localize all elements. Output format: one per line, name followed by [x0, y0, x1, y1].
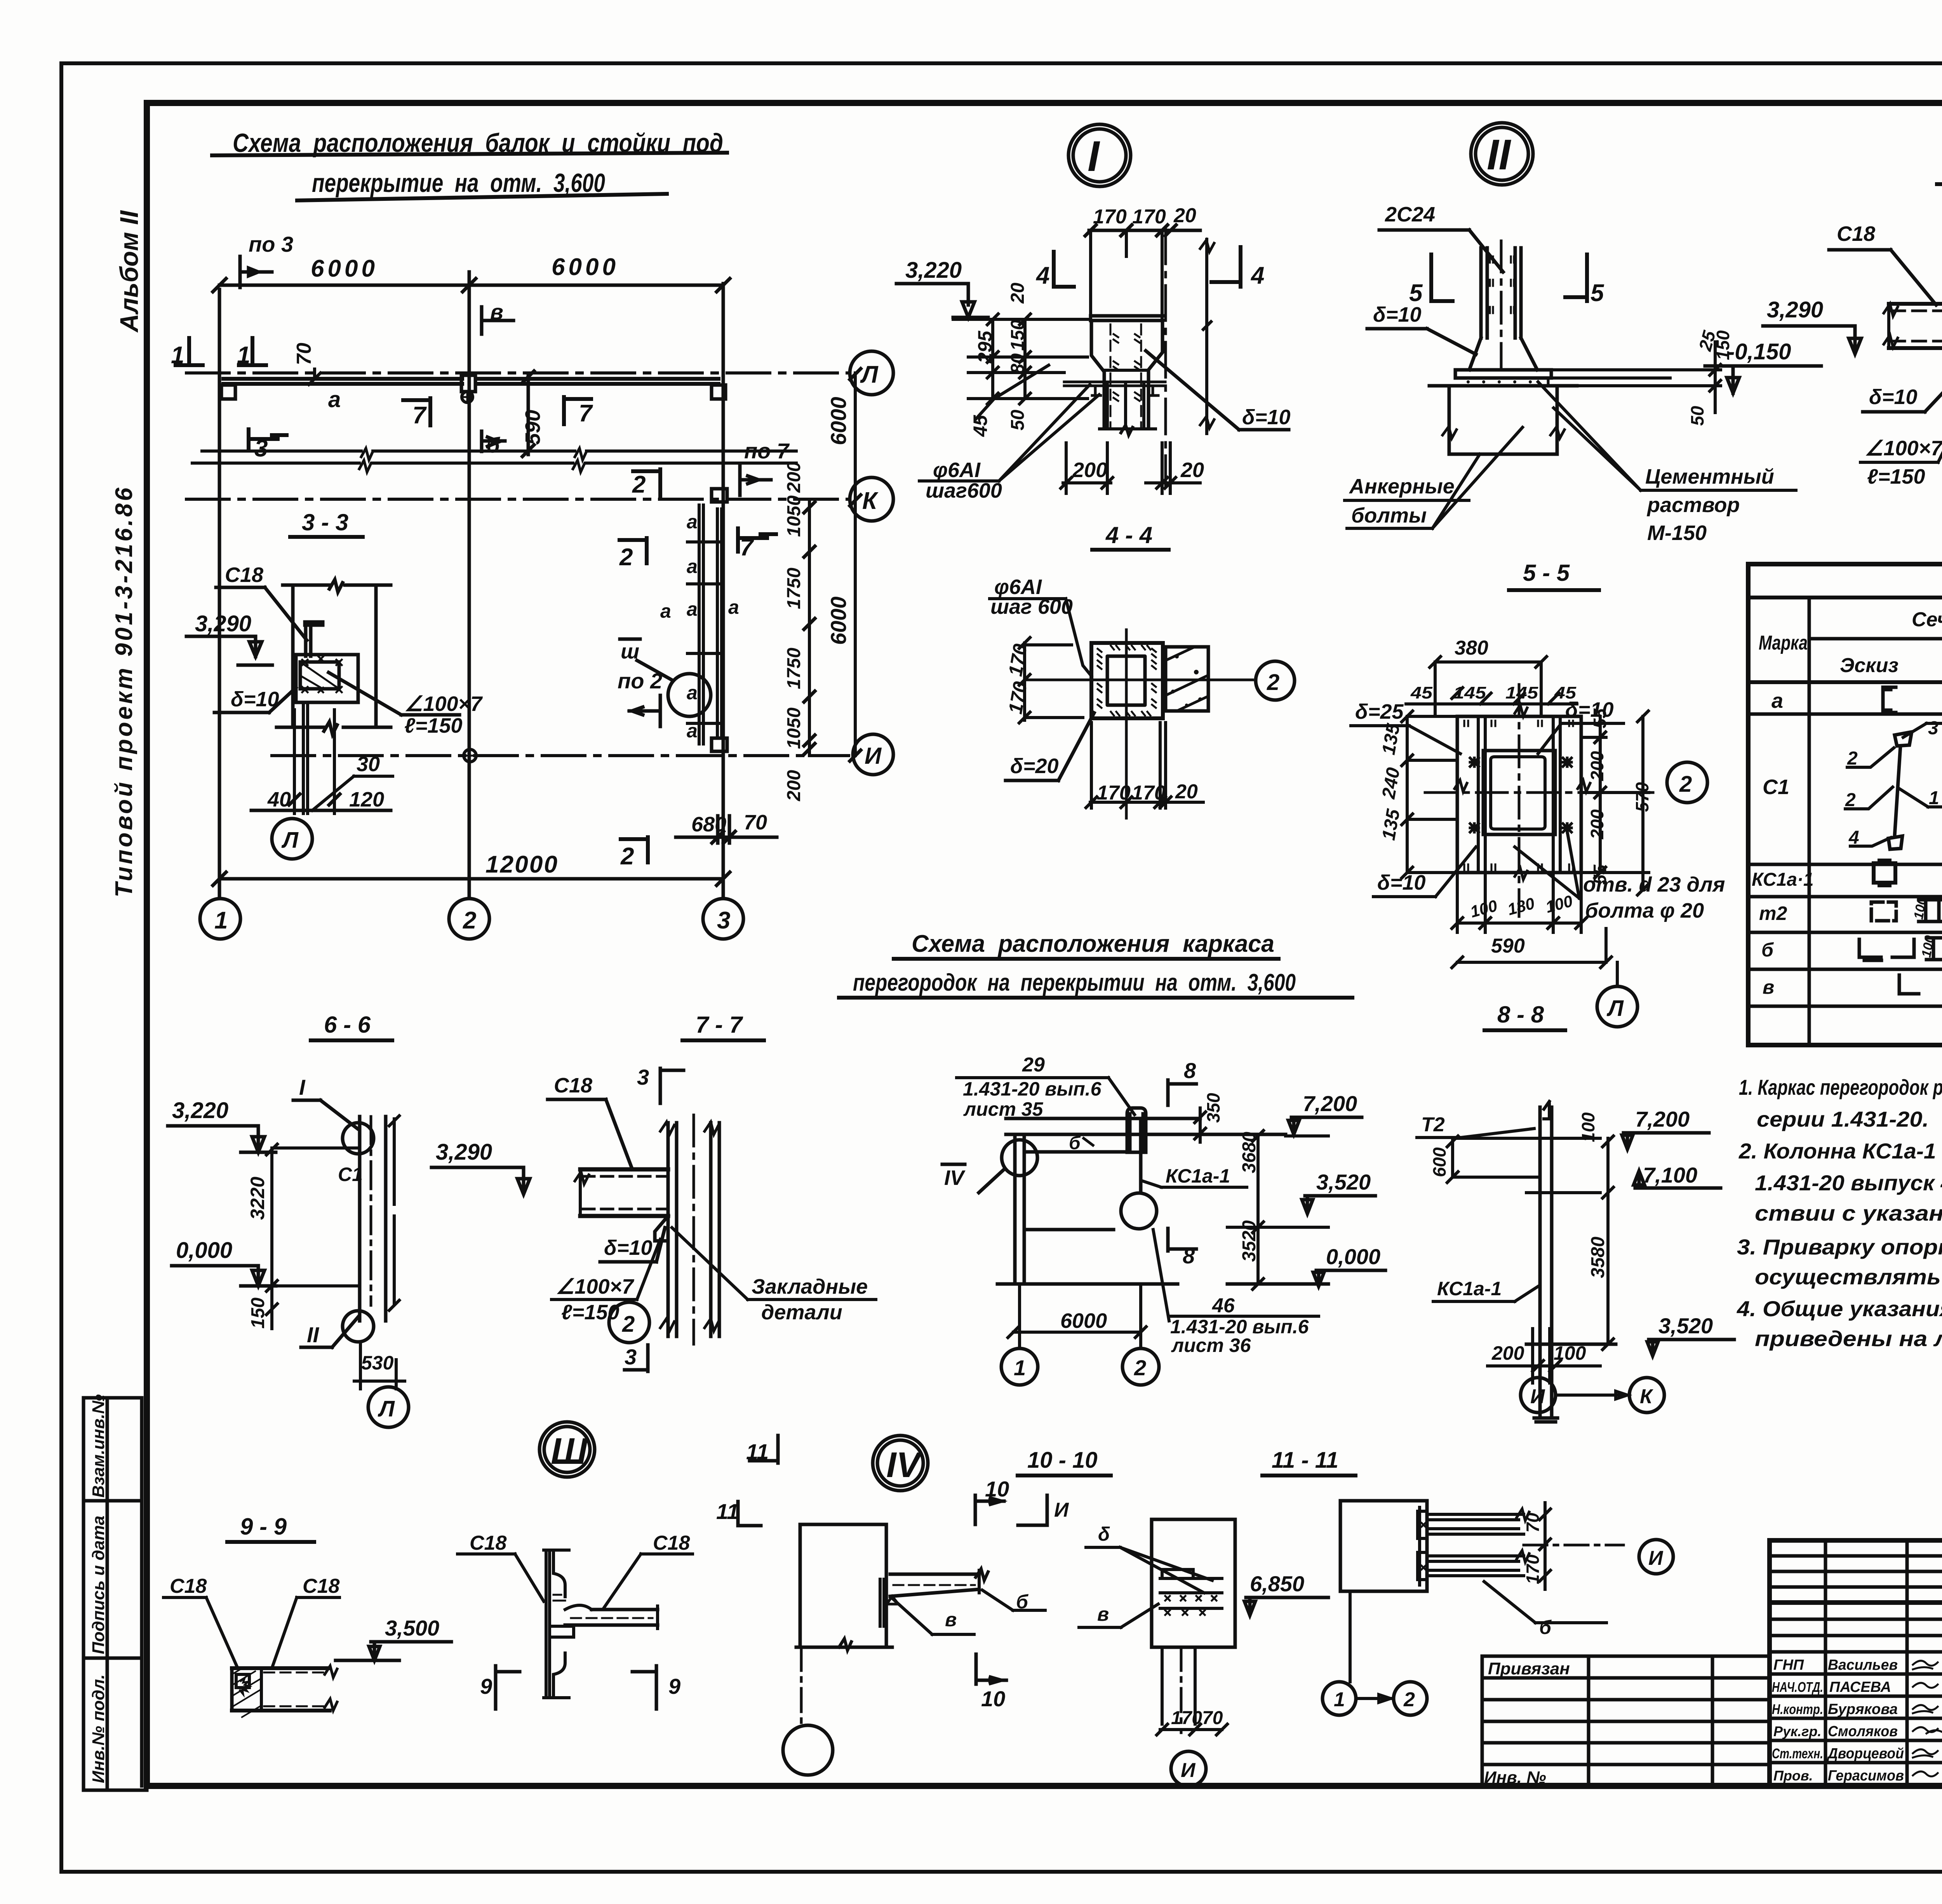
7-7 delta=10 label [600, 1228, 665, 1262]
row KC1a-1 [1752, 860, 1942, 891]
frame bottom dim 6000 [1008, 1284, 1146, 1348]
svg-text:С18: С18 [170, 1575, 207, 1597]
level 3,290 detail 3-3 [186, 611, 272, 665]
svg-text:a: a [728, 596, 739, 618]
5-5 dim 590 [1452, 928, 1611, 968]
left reference grid [1482, 1656, 1770, 1787]
svg-text:3580: 3580 [1588, 1237, 1608, 1278]
label 4-4 [1092, 522, 1169, 550]
svg-text:детали: детали [761, 1301, 842, 1324]
node I section mark 4 left [1035, 252, 1074, 289]
section mark 2 upper [632, 469, 660, 498]
svg-text:Сечения: Сечения [1912, 608, 1942, 631]
label delta=10 detail 3-3 [214, 688, 296, 712]
svg-text:9 - 9: 9 - 9 [240, 1514, 287, 1540]
node II level -0,150 [1705, 339, 1821, 393]
svg-text:Закладные: Закладные [752, 1275, 868, 1298]
8-8 bottom dims 200 100 [1488, 1329, 1600, 1383]
svg-text:Инв. №: Инв. № [1484, 1768, 1546, 1787]
level 0,000 frame [1227, 1244, 1385, 1286]
svg-text:∠100×7: ∠100×7 [556, 1275, 635, 1298]
svg-text:1.431-20 вып.6: 1.431-20 вып.6 [963, 1078, 1102, 1100]
svg-text:1: 1 [1929, 788, 1939, 808]
svg-text:11 - 11: 11 - 11 [1272, 1448, 1338, 1473]
svg-text:2: 2 [1845, 790, 1856, 810]
axis I dash-dot [272, 749, 849, 763]
svg-text:8: 8 [1184, 1058, 1196, 1083]
circle III node label [539, 1422, 595, 1477]
svg-text:200: 200 [784, 770, 804, 801]
7-7 section mark 3 bottom [625, 1345, 648, 1371]
label 1-1 [1937, 154, 1942, 184]
node I right break line [1200, 239, 1214, 434]
section mark 2 mid [619, 538, 647, 571]
svg-text:295: 295 [974, 330, 996, 364]
5-5 circle L [1597, 962, 1637, 1027]
svg-text:80: 80 [1008, 353, 1028, 374]
svg-text:КС1а·1: КС1а·1 [1752, 869, 1814, 890]
mark po 3 [240, 232, 293, 287]
svg-text:δ=25: δ=25 [1355, 700, 1404, 723]
10-10 level 6,850 [1244, 1571, 1328, 1615]
svg-text:2: 2 [622, 1312, 635, 1337]
6-6 node I ref [293, 1075, 357, 1129]
svg-text:6000: 6000 [826, 397, 851, 445]
5-5 delta=10 right label [1538, 698, 1624, 754]
svg-text:2: 2 [1847, 748, 1858, 769]
6-6 dim 530 [354, 1344, 405, 1389]
mark sh III with circle [620, 639, 711, 716]
4-4 left dims 170 170 [1004, 638, 1083, 723]
mark po 7 [740, 439, 790, 495]
svg-text:С18: С18 [470, 1532, 506, 1554]
svg-text:δ=10: δ=10 [1377, 871, 1426, 894]
label 8-8 [1484, 1002, 1565, 1030]
svg-text:2: 2 [1403, 1688, 1415, 1711]
svg-text:a: a [687, 598, 698, 620]
svg-text:раствор: раствор [1646, 493, 1740, 517]
III column and beam [544, 1550, 658, 1698]
svg-text:перегородок на перекрытии н: перегородок на перекрытии на отм. 3,600 [853, 969, 1296, 996]
svg-text:болта φ 20: болта φ 20 [1585, 899, 1704, 922]
section mark 2 bottom [620, 837, 648, 870]
svg-text:3,520: 3,520 [1316, 1170, 1371, 1194]
svg-text:И: И [1054, 1499, 1069, 1521]
dim 350 [1195, 1093, 1223, 1142]
III C18 labels [458, 1532, 693, 1608]
9-9 C18 labels [164, 1575, 339, 1668]
svg-text:3,520: 3,520 [1658, 1313, 1713, 1338]
svg-text:Цементный: Цементный [1645, 465, 1774, 488]
5-5 plate square [1425, 685, 1653, 916]
svg-text:5: 5 [1409, 280, 1423, 307]
svg-text:IV: IV [944, 1166, 966, 1190]
svg-text:С18: С18 [653, 1532, 690, 1554]
svg-text:С1: С1 [1763, 775, 1789, 799]
label KC1a-1 on frame [1143, 1165, 1247, 1187]
section mark I right [1018, 1495, 1069, 1525]
svg-text:3. Приварку опорных консолей (: 3. Приварку опорных консолей (∠100×7) к … [1737, 1235, 1942, 1259]
svg-text:3,290: 3,290 [1767, 297, 1823, 322]
left margin vertical text: project number [111, 485, 137, 897]
svg-text:по 3: по 3 [249, 232, 293, 256]
dim 3520 frame [1239, 1220, 1263, 1289]
svg-text:170: 170 [1132, 206, 1166, 228]
svg-text:3,220: 3,220 [905, 258, 962, 283]
stamp signatures [1772, 1657, 1942, 1784]
svg-text:осуществлять по всему периметр: осуществлять по всему периметру сопряжен… [1755, 1265, 1942, 1289]
svg-text:1: 1 [214, 907, 228, 934]
11-11 circles 1 2 [1323, 1682, 1427, 1715]
svg-text:70: 70 [1523, 1512, 1543, 1533]
8-8 dim 3580 [1588, 1193, 1613, 1350]
svg-text:200: 200 [1072, 458, 1107, 482]
section mark 11 upper right of III [716, 1499, 761, 1526]
svg-text:3,290: 3,290 [436, 1139, 492, 1165]
5-5 hole label [1515, 831, 1725, 922]
svg-text:КС1а-1: КС1а-1 [1166, 1165, 1230, 1187]
svg-text:Т2: Т2 [1421, 1113, 1445, 1136]
5-5 delta=10 bottom label [1373, 847, 1476, 897]
row C1 [1763, 718, 1942, 866]
level 7,200 frame [1288, 1091, 1362, 1134]
svg-text:в: в [1763, 976, 1774, 998]
8-8 T2 label [1417, 1113, 1534, 1138]
svg-text:20: 20 [1008, 282, 1028, 304]
svg-text:ПАСЕВА: ПАСЕВА [1829, 1679, 1891, 1695]
5-5 right dims 55 200 200 570 55 [1581, 708, 1652, 895]
section mark 7 right [564, 397, 593, 427]
svg-text:2: 2 [1679, 772, 1692, 797]
node II label 2C24 [1379, 203, 1503, 272]
svg-text:46: 46 [1212, 1294, 1235, 1317]
svg-text:8: 8 [1183, 1244, 1195, 1268]
svg-text:2: 2 [632, 471, 646, 498]
frame beam and posts [997, 1108, 1286, 1284]
10-10 delta label [1086, 1523, 1212, 1593]
node II dims 25 150 50 [1546, 328, 1733, 426]
node II circle [1471, 123, 1533, 185]
9-9 beam [232, 1666, 337, 1717]
axis grid line 3 vertical [722, 284, 725, 897]
svg-text:по 7: по 7 [744, 439, 790, 463]
svg-text:3,500: 3,500 [385, 1616, 439, 1640]
axis K dash-dot [186, 498, 849, 501]
table frame [1748, 564, 1942, 1045]
node II anchor bolts label [1345, 427, 1523, 528]
svg-text:К: К [862, 488, 879, 514]
node I axis dash-dot [1164, 229, 1167, 486]
svg-text:Ст.техн.: Ст.техн. [1772, 1745, 1823, 1761]
svg-text:Типовой проект 901-3-216.86: Типовой проект 901-3-216.86 [111, 485, 137, 897]
svg-text:Схема расположения каркаса: Схема расположения каркаса [912, 930, 1274, 957]
svg-text:120: 120 [349, 788, 384, 811]
svg-text:К: К [1640, 1385, 1653, 1408]
svg-text:I: I [1088, 132, 1100, 180]
svg-text:Герасимов: Герасимов [1828, 1768, 1904, 1784]
svg-text:7,200: 7,200 [1635, 1107, 1690, 1131]
label 9-9 [227, 1514, 314, 1542]
svg-text:4. Общие указания и требования: 4. Общие указания и требования по расчет… [1737, 1296, 1942, 1321]
svg-text:30: 30 [357, 753, 380, 776]
svg-text:δ=10: δ=10 [1242, 406, 1291, 429]
svg-text:IV: IV [886, 1445, 923, 1485]
svg-text:7 - 7: 7 - 7 [696, 1012, 743, 1038]
left margin stamp strip [84, 1394, 147, 1790]
svg-text:Ш: Ш [551, 1430, 588, 1472]
svg-text:лист 36: лист 36 [1171, 1334, 1251, 1356]
section mark 3 [249, 429, 287, 462]
node II delta=10 label [1367, 303, 1476, 354]
4-4 delta=20 label [1006, 713, 1094, 780]
svg-text:в: в [1097, 1603, 1109, 1625]
5-5 delta=25 label [1351, 700, 1460, 754]
svg-text:0,000: 0,000 [176, 1238, 232, 1263]
svg-text:70: 70 [744, 811, 767, 834]
right wall element with a labels [660, 489, 739, 751]
svg-text:11: 11 [716, 1499, 739, 1524]
svg-text:3,220: 3,220 [172, 1098, 228, 1123]
7-7 C18 label [548, 1074, 632, 1169]
svg-text:7: 7 [579, 400, 593, 427]
4-4 rebar label [990, 575, 1091, 676]
10-10 drawing [1152, 1519, 1235, 1733]
7-7 embedded parts label [672, 1228, 876, 1324]
svg-text:И: И [1181, 1759, 1196, 1782]
svg-text:5: 5 [1590, 280, 1604, 307]
svg-text:II: II [1487, 131, 1512, 179]
svg-text:3 - 3: 3 - 3 [302, 509, 348, 535]
node I delta=10 label [1146, 351, 1291, 430]
svg-text:70: 70 [293, 343, 315, 365]
11-11 drawing [1340, 1501, 1529, 1682]
ref 46 list 36 [1169, 1294, 1319, 1356]
node I column body [1064, 316, 1165, 435]
svg-text:45: 45 [1410, 683, 1433, 702]
svg-text:Дворцевой: Дворцевой [1827, 1745, 1904, 1762]
title: partition frame scheme [839, 930, 1352, 998]
circle axis I [853, 734, 893, 775]
svg-text:590: 590 [1491, 935, 1525, 957]
dim 680 70 bottom right of plan [676, 811, 777, 843]
svg-text:4: 4 [1848, 827, 1859, 848]
axis circle 3 [703, 899, 743, 939]
4-4 circle 2 [1256, 661, 1295, 700]
svg-text:200: 200 [1587, 751, 1607, 781]
svg-text:6000: 6000 [1060, 1309, 1107, 1333]
svg-text:отв. d 23 для: отв. d 23 для [1583, 873, 1725, 896]
section marks 10 [975, 1477, 1009, 1711]
svg-text:Анкерные: Анкерные [1349, 475, 1455, 498]
7-7 level 3,290 [432, 1139, 530, 1194]
section mark 7 left [403, 398, 430, 429]
svg-text:δ=10: δ=10 [1869, 385, 1918, 409]
node II section mark 5 left [1409, 254, 1453, 307]
label 5-5 [1509, 560, 1599, 590]
8-8 label KC1a-1 [1433, 1278, 1539, 1301]
svg-text:45: 45 [969, 415, 991, 437]
section mark 1 second [237, 338, 266, 369]
node I dim 20 right [1146, 443, 1204, 493]
left margin vertical text: Album II [115, 210, 143, 333]
svg-text:δ: δ [1098, 1523, 1110, 1545]
IV b label [982, 1590, 1045, 1613]
8-8 level 3,520 [1526, 1313, 1734, 1356]
label 11-11 [1262, 1448, 1356, 1475]
5-5 left dims 135 240 135 [1378, 711, 1455, 878]
long partition beam lines with breaks [192, 448, 796, 472]
svg-text:20: 20 [1175, 780, 1198, 803]
5-5 dims 45 145 145 45 [1406, 683, 1577, 704]
10-10 circle I [1171, 1751, 1206, 1786]
svg-text:530: 530 [361, 1352, 394, 1374]
circle IV node label right [873, 1435, 928, 1491]
node I section mark 4 right [1211, 247, 1264, 289]
svg-text:a: a [660, 600, 671, 622]
svg-text:б: б [1069, 1133, 1081, 1153]
svg-text:4: 4 [1250, 262, 1264, 289]
6-6 level 3,220 [168, 1098, 360, 1152]
svg-text:φ6АI: φ6АI [933, 458, 981, 482]
svg-text:a: a [687, 720, 698, 742]
section mark 7 mid [738, 528, 776, 561]
svg-text:350: 350 [1203, 1093, 1223, 1123]
ref 29 / 1.431-20 vyp.6 list 35 [957, 1054, 1135, 1120]
section mark 1 left [171, 338, 203, 369]
svg-text:-0,150: -0,150 [1727, 339, 1791, 364]
svg-text:1.431-20 выпуск 4 только длино: 1.431-20 выпуск 4 только длиной и выполн… [1755, 1171, 1942, 1195]
svg-text:600: 600 [1429, 1147, 1450, 1177]
svg-text:a: a [687, 556, 698, 577]
dim 3680 frame [1227, 1131, 1328, 1233]
svg-text:ГНП: ГНП [1773, 1657, 1804, 1673]
8-8 dim 600 [1429, 1136, 1538, 1183]
svg-text:НАЧ.ОТД.: НАЧ.ОТД. [1772, 1679, 1823, 1695]
7-7 angle label [552, 1239, 660, 1324]
svg-text:1: 1 [1334, 1688, 1345, 1711]
svg-text:380: 380 [1455, 637, 1488, 659]
svg-text:С18: С18 [225, 563, 263, 587]
svg-text:С18: С18 [303, 1575, 339, 1597]
svg-text:δ=10: δ=10 [231, 688, 279, 711]
section mark 8 top [1168, 1058, 1196, 1105]
axis L dash-dot [186, 371, 849, 375]
svg-text:серии 1.431-20.: серии 1.431-20. [1757, 1107, 1929, 1131]
svg-text:200: 200 [1587, 809, 1607, 840]
svg-text:2. Колонна КС1а-1 отличается о: 2. Колонна КС1а-1 отличается от типовой … [1738, 1139, 1942, 1163]
section mark 11 left [746, 1435, 778, 1464]
1-1 delta=10 [1863, 343, 1942, 412]
svg-text:С18: С18 [554, 1074, 592, 1097]
node II cement label [1538, 382, 1796, 545]
svg-text:∠100×7: ∠100×7 [404, 692, 483, 716]
7-7 section mark 3 top [637, 1065, 684, 1103]
svg-text:II: II [307, 1322, 320, 1347]
svg-text:б: б [1761, 939, 1774, 961]
svg-text:И: И [1648, 1547, 1664, 1570]
svg-text:приведены на листе 1.: приведены на листе 1. [1755, 1326, 1942, 1351]
IV v label [892, 1598, 974, 1634]
svg-text:δ=20: δ=20 [1010, 754, 1059, 778]
section mark 8 bottom [1168, 1228, 1196, 1268]
svg-text:М-150: М-150 [1647, 521, 1707, 545]
label 7-7 [682, 1012, 764, 1040]
svg-text:100: 100 [1578, 1112, 1598, 1142]
III section marks 9 [480, 1666, 680, 1709]
svg-text:3: 3 [1928, 718, 1939, 739]
dim 70 near beam [293, 343, 320, 385]
6-6 dim 150 [248, 1286, 277, 1329]
svg-text:a: a [328, 387, 341, 412]
svg-text:1: 1 [1014, 1355, 1026, 1380]
svg-text:5 - 5: 5 - 5 [1523, 560, 1570, 586]
svg-text:7: 7 [412, 402, 427, 429]
main stamp frame [1770, 1540, 1942, 1786]
svg-text:3: 3 [717, 907, 730, 934]
6-6 level 0,000 [172, 1238, 360, 1286]
svg-text:т2: т2 [1759, 902, 1787, 924]
svg-text:болты: болты [1351, 504, 1427, 527]
svg-text:Взам.инв.№: Взам.инв.№ [89, 1394, 108, 1498]
svg-text:Васильев: Васильев [1828, 1657, 1898, 1673]
svg-text:9: 9 [668, 1674, 680, 1698]
beam a along axis L [221, 375, 726, 412]
frame axis circle 1 [1001, 1348, 1038, 1385]
svg-text:Рук.гр.: Рук.гр. [1773, 1723, 1822, 1739]
svg-text:И: И [1530, 1385, 1545, 1408]
svg-text:6,850: 6,850 [1250, 1571, 1304, 1596]
svg-text:4: 4 [1035, 262, 1049, 289]
svg-text:∠100×7: ∠100×7 [1865, 437, 1942, 460]
svg-text:3: 3 [625, 1345, 637, 1369]
svg-text:145: 145 [1505, 683, 1538, 702]
detail 3-3 drawing [216, 563, 391, 814]
1-1 level 3,290 [1763, 297, 1861, 354]
svg-text:ствии с указаниями серии.: ствии с указаниями серии. [1755, 1201, 1942, 1225]
node II section mark 5 right [1565, 254, 1604, 307]
title: beam layout scheme [212, 128, 727, 200]
svg-text:Инв.№ подл.: Инв.№ подл. [89, 1674, 108, 1783]
circle L detail 3-3 [272, 819, 312, 859]
svg-text:10: 10 [981, 1686, 1005, 1711]
svg-text:20: 20 [1180, 458, 1204, 482]
4-4 concrete block [1166, 647, 1208, 711]
4-4 baseplate square [1091, 643, 1163, 718]
svg-text:29: 29 [1022, 1054, 1045, 1076]
svg-text:a: a [687, 682, 698, 704]
circle axis K [850, 477, 893, 521]
svg-text:КС1а-1: КС1а-1 [1437, 1278, 1502, 1300]
axis circle 1 [200, 899, 240, 939]
level 3,520 frame [1302, 1170, 1375, 1214]
NOTES text block [1737, 1075, 1942, 1351]
svg-text:50: 50 [1008, 409, 1028, 430]
5-5 dim 380 [1430, 637, 1547, 716]
svg-text:2: 2 [1134, 1355, 1146, 1380]
svg-text:С1: С1 [338, 1164, 363, 1185]
svg-text:2С24: 2С24 [1385, 203, 1435, 226]
11-11 circle I with dash line [1524, 1540, 1673, 1574]
svg-text:Эскиз: Эскиз [1840, 654, 1898, 677]
svg-text:Бурякова: Бурякова [1828, 1701, 1898, 1718]
svg-text:Л: Л [860, 361, 879, 388]
11-11 b label [1484, 1582, 1606, 1638]
node I circle [1068, 124, 1131, 186]
svg-text:Л: Л [1606, 996, 1624, 1021]
svg-text:по 2: по 2 [618, 669, 662, 693]
axis circle 2 [449, 899, 489, 939]
svg-text:6 - 6: 6 - 6 [324, 1012, 371, 1038]
